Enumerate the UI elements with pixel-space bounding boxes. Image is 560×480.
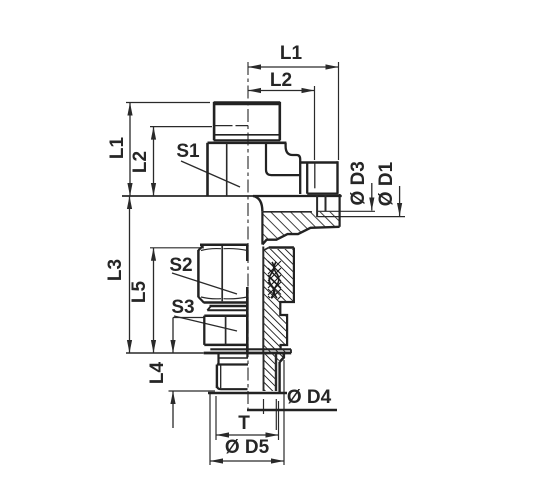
svg-text:L1: L1 — [280, 43, 303, 64]
svg-text:Ø D5: Ø D5 — [225, 437, 270, 458]
washer mid line — [219, 357, 249, 359]
svg-text:L1: L1 — [107, 136, 128, 159]
locknut S3 outline — [204, 316, 248, 345]
svg-text:T: T — [238, 413, 250, 434]
svg-text:L5: L5 — [129, 280, 150, 303]
D5 extension line right — [283, 360, 285, 465]
shoulder line y=196 right part — [253, 195, 342, 197]
dimension D5 line — [210, 460, 284, 462]
washer right edge in section — [280, 354, 284, 362]
section flange staircase — [262, 227, 339, 245]
dimension L1 left line — [129, 103, 131, 197]
body inner step — [266, 143, 300, 175]
L4 upper jog line — [173, 317, 204, 319]
short tick x=263.5 — [263, 399, 265, 414]
washer band left edge — [217, 354, 219, 365]
dimension L3 line — [129, 196, 131, 353]
locknut S3 facet line — [225, 316, 227, 345]
dimension L5 line — [153, 248, 155, 353]
extension line y=102.5 left — [126, 102, 210, 104]
lower body tube bore wall — [262, 247, 264, 353]
washer right edge in section — [290, 349, 292, 353]
dimension T line — [216, 434, 279, 436]
dimension L2 left line — [153, 127, 155, 196]
body left edge — [206, 143, 209, 196]
svg-text:L3: L3 — [105, 259, 126, 281]
D4 extension line — [275, 399, 277, 430]
dimension L1 top line — [248, 66, 339, 68]
svg-text:S1: S1 — [176, 141, 200, 162]
top stud thread line — [215, 125, 248, 127]
svg-text:S3: S3 — [171, 297, 194, 318]
lower body tube stepped right edge — [280, 248, 294, 350]
svg-text:L4: L4 — [147, 361, 168, 384]
L4 upper outside arrow — [172, 318, 174, 354]
sub-port vertical b — [325, 195, 327, 211]
svg-text:L2: L2 — [270, 70, 292, 91]
shoulder line y=353 — [126, 352, 204, 354]
sub-port vertical a — [316, 195, 318, 217]
hex nut S2 outline — [198, 245, 248, 303]
S3 leader line — [174, 316, 237, 331]
extension line y=391 left — [169, 390, 216, 392]
washer under S3 — [210, 348, 291, 350]
bottom stud outline — [208, 362, 287, 393]
D3 arrow — [371, 183, 373, 211]
D1 arrow — [399, 186, 401, 216]
svg-text:Ø D3: Ø D3 — [348, 161, 369, 205]
centerline vertical axis — [247, 62, 249, 411]
svg-text:L2: L2 — [130, 151, 151, 173]
lower body tube hatch — [263, 249, 294, 353]
T extension line left — [215, 396, 217, 440]
L4 lower outside arrow — [172, 391, 174, 428]
extension line x=314.5 — [314, 86, 316, 160]
section cut edge at washer — [246, 354, 248, 358]
S1 leader line — [181, 161, 240, 187]
section cut edge upper — [246, 245, 249, 261]
svg-text:Ø D1: Ø D1 — [376, 161, 397, 206]
extension line y=126.6 left — [150, 126, 212, 128]
shoulder heavy line y=353 — [204, 352, 292, 355]
hex nut S2 chamfer arcs — [201, 249, 248, 299]
washer corner hatch — [276, 354, 284, 362]
D5 extension line left — [209, 393, 211, 465]
svg-text:Ø D4: Ø D4 — [287, 387, 332, 408]
top stud outline — [214, 102, 281, 140]
D3 extension line — [317, 210, 376, 212]
T extension line right — [278, 401, 280, 440]
washer under S2 — [207, 306, 248, 310]
bottom stud bore wall — [263, 354, 265, 391]
section flange hatch top line — [262, 211, 312, 213]
stud top face — [217, 363, 248, 365]
side port outline — [300, 161, 338, 193]
dimension L2 top line — [248, 90, 315, 92]
S2 leader line — [172, 273, 237, 294]
section flange hatch — [262, 212, 339, 245]
side port left edge — [306, 163, 308, 194]
body top face — [208, 142, 287, 145]
side port inner thread line — [314, 163, 316, 189]
shoulder line y=196 — [122, 195, 253, 197]
section cut edge lower — [246, 287, 249, 353]
D1 extension line — [317, 216, 405, 218]
lower body tube top chamfer — [263, 248, 269, 251]
body S1 hex facet line — [226, 143, 228, 196]
lower body tube top edge — [269, 246, 294, 248]
extension line x=338.5 — [338, 62, 340, 160]
body right outer step — [286, 143, 301, 194]
bottom stud section hatch — [263, 354, 276, 391]
section flange bore wall — [261, 212, 263, 245]
section flange fillet — [253, 196, 262, 212]
hex nut S2 facet line — [221, 246, 223, 301]
thread engagement dense zone — [268, 261, 281, 300]
section flange right edge — [339, 194, 341, 227]
bottom stud thread root right — [275, 354, 277, 391]
extension line y=247.8 left — [150, 247, 204, 249]
D4 reference line — [247, 409, 337, 411]
